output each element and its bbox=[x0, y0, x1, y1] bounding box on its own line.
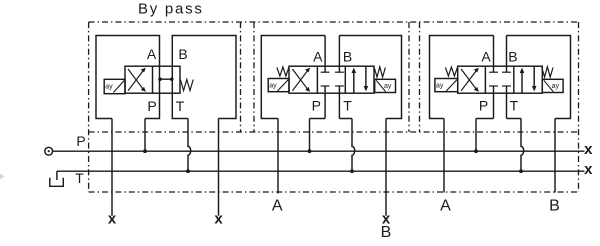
spring V3 right bbox=[542, 67, 553, 77]
wire: T rail bbox=[57, 170, 585, 172]
svg-text:x: x bbox=[214, 211, 223, 228]
wire V3 T to T rail with hop over P rail bbox=[521, 119, 524, 172]
svg-text:A: A bbox=[313, 48, 323, 64]
svg-text:x: x bbox=[584, 161, 593, 178]
svg-text:ay: ay bbox=[552, 83, 560, 90]
svg-text:T: T bbox=[510, 97, 519, 113]
pump / pressure source symbol bbox=[45, 147, 53, 155]
tank symbol bbox=[56, 171, 58, 180]
svg-text:P: P bbox=[312, 97, 321, 113]
valve V3 body bbox=[458, 66, 543, 93]
spring V2 left bbox=[277, 67, 289, 76]
valve V3 parallel-flow position arrows bbox=[521, 72, 523, 93]
enclosure V2 box right edge bbox=[408, 22, 410, 132]
svg-text:B: B bbox=[178, 46, 187, 62]
wire V1 port A down to plug bbox=[111, 119, 113, 216]
solenoid V2 right bbox=[375, 79, 396, 92]
spring V1 (right) bbox=[180, 80, 193, 91]
svg-text:A: A bbox=[440, 198, 451, 215]
svg-text:P: P bbox=[76, 133, 85, 149]
spring V3 left bbox=[445, 67, 457, 76]
enclosure dash-dot frame: right edge bbox=[578, 22, 580, 192]
valve V1 crossed-flow position arrows bbox=[128, 69, 143, 91]
solenoid V3 left bbox=[435, 79, 458, 92]
valve V3 closed-centre port stubs bbox=[489, 72, 511, 86]
svg-text:x: x bbox=[108, 211, 117, 228]
solenoid V1 bbox=[104, 79, 125, 93]
valve V1 bypass bridge P-T bbox=[160, 78, 173, 80]
solenoid V2 left bbox=[268, 79, 289, 92]
junction V1 P on rail bbox=[143, 149, 147, 153]
valve V2 right manifold block bbox=[339, 36, 401, 119]
edge artifact mark bbox=[0, 174, 5, 180]
enclosure dash-dot frame: bottom edge bbox=[89, 191, 579, 193]
svg-text:ay: ay bbox=[105, 84, 113, 91]
junction dots on bridge bbox=[158, 77, 162, 81]
wire V3 port B down to work port bbox=[554, 119, 556, 193]
wire V1 T to T rail with hop over P rail bbox=[188, 119, 191, 172]
svg-text:P: P bbox=[147, 98, 156, 114]
wire V3 port A down to work port bbox=[443, 119, 445, 193]
valve V2 closed-centre port stubs bbox=[321, 72, 344, 86]
wire V1 port B down to plug bbox=[218, 119, 220, 216]
valve V1 body bbox=[125, 66, 180, 93]
svg-text:T: T bbox=[343, 97, 352, 113]
enclosure V2 box left edge bbox=[253, 22, 255, 132]
svg-text:P: P bbox=[479, 97, 488, 113]
valve V2 body bbox=[289, 66, 374, 93]
wire V2 port B down to plug bbox=[385, 119, 387, 216]
valve V2 crossed-flow position arrows bbox=[292, 69, 307, 91]
svg-text:ay: ay bbox=[269, 82, 277, 89]
enclosure dash-dot frame: top edge bbox=[89, 22, 579, 192]
wire V2 port A down to work port bbox=[277, 119, 279, 194]
svg-text:B: B bbox=[549, 198, 560, 215]
junction V1 T on rail bbox=[186, 169, 190, 173]
svg-text:B: B bbox=[343, 48, 352, 64]
valve V2 left manifold block bbox=[261, 36, 325, 119]
valve V1 right manifold block bbox=[172, 36, 236, 119]
valve V3 crossed-flow position arrows bbox=[461, 69, 476, 91]
svg-text:By pass: By pass bbox=[138, 1, 204, 18]
wire V2 T to T rail with hop over P rail bbox=[352, 119, 355, 172]
spring V2 right bbox=[374, 67, 385, 77]
svg-text:T: T bbox=[75, 170, 84, 186]
svg-text:A: A bbox=[272, 198, 283, 215]
valve V2 parallel-flow position arrows bbox=[353, 72, 355, 93]
wire V1 P to P rail bbox=[144, 119, 146, 152]
solenoid V3 right bbox=[542, 79, 563, 92]
svg-text:x: x bbox=[584, 141, 593, 158]
junction V2 T on rail bbox=[350, 169, 354, 173]
junction V3 P on rail bbox=[474, 149, 478, 153]
junction V2 P on rail bbox=[308, 149, 312, 153]
junction V3 T on rail bbox=[519, 169, 523, 173]
enclosure V3 box left edge bbox=[419, 22, 421, 132]
wire: P rail bbox=[53, 150, 585, 152]
enclosure dash-dot frame: left edge bbox=[88, 22, 90, 192]
valve V3 right manifold block bbox=[507, 36, 571, 119]
svg-text:A: A bbox=[481, 48, 491, 64]
svg-text:ay: ay bbox=[384, 83, 392, 90]
enclosure dash-dot frame: manifold separator bbox=[89, 131, 579, 133]
svg-text:B: B bbox=[381, 224, 392, 241]
svg-text:A: A bbox=[147, 46, 157, 62]
svg-text:T: T bbox=[176, 98, 185, 114]
wire V3 P to P rail bbox=[475, 119, 477, 152]
svg-text:B: B bbox=[508, 48, 517, 64]
svg-text:ay: ay bbox=[436, 82, 444, 89]
valve V3 left manifold block bbox=[430, 36, 494, 119]
wire V2 P to P rail bbox=[309, 119, 311, 152]
valve V1 left manifold block bbox=[96, 36, 160, 119]
enclosure V1 box right edge bbox=[240, 22, 242, 132]
